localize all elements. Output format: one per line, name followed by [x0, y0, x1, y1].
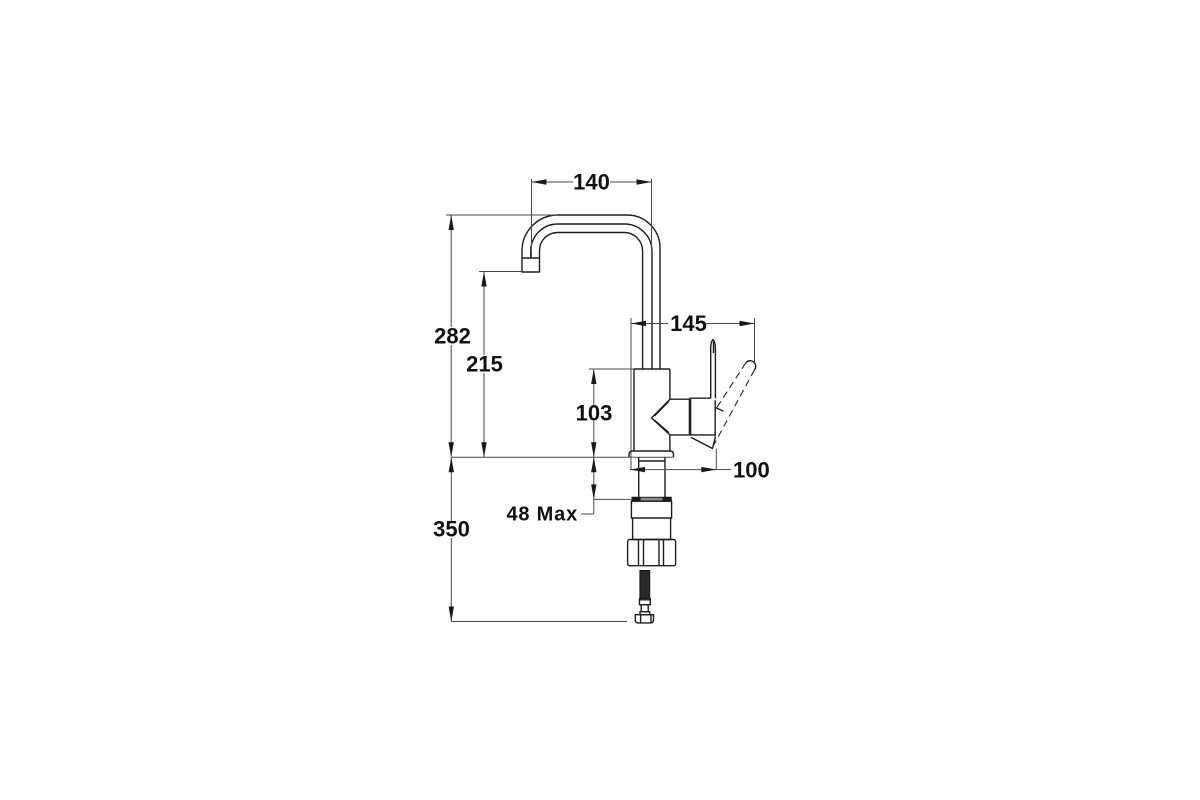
dim 282 extension: [446, 214, 558, 216]
dim 48max up arrow: [591, 457, 596, 472]
cartridge block top line: [670, 398, 711, 399]
dim 100 right extension: [715, 449, 717, 470]
dim 215 extension: [479, 271, 522, 273]
hex facet lines: [641, 615, 651, 623]
dim 282 down arrow: [449, 442, 454, 457]
dashed handle lower edge: [711, 370, 755, 451]
dim 48max arrows line: [593, 457, 595, 514]
locknut upper: [631, 501, 671, 518]
dim 103 line: [593, 369, 595, 457]
dim 350 down arrow: [449, 607, 454, 622]
dim 145 left arrow: [631, 321, 646, 326]
svg-text:350: 350: [433, 517, 470, 542]
dim 100 right arrow: [701, 467, 716, 472]
dim 103 extension: [589, 368, 634, 370]
dim 282 up arrow: [449, 215, 454, 230]
dim 215 up arrow: [481, 272, 486, 287]
dim 350 line: [450, 457, 452, 621]
spout tube middle line: [531, 224, 652, 369]
cartridge divider thick line: [689, 399, 692, 435]
handle base wedge below block: [691, 437, 715, 449]
dim 103 up arrow: [591, 369, 596, 384]
knurled nut: [628, 540, 676, 566]
stud collar: [640, 599, 651, 605]
knurl lines: [639, 540, 664, 566]
dim 100 line: [630, 469, 716, 471]
spout tube inner line: [540, 232, 643, 369]
cartridge block right edge: [714, 400, 716, 436]
washer black end left: [632, 497, 641, 502]
washer extension line: [594, 498, 632, 500]
faucet body: [634, 369, 670, 451]
deck line: [452, 456, 674, 458]
dim 100 left arrow: [630, 467, 645, 472]
dim 145 left extension: [630, 318, 632, 470]
dim 145 right extension: [754, 318, 756, 362]
washer black end right: [663, 497, 672, 502]
stud neck: [641, 605, 648, 612]
svg-text:103: 103: [576, 401, 613, 426]
dim 48max leader: [581, 513, 594, 515]
spout tube outer outline: [522, 215, 660, 369]
svg-text:140: 140: [573, 170, 610, 195]
dim 140 right extension: [651, 179, 653, 252]
dim 215 line: [483, 272, 485, 458]
dim 215 down arrow: [481, 442, 486, 457]
svg-text:145: 145: [670, 311, 707, 336]
dim 145 line: [631, 323, 755, 325]
dim 100 leader: [716, 469, 731, 471]
cartridge wedge on body: [652, 399, 670, 435]
dim 140 right arrow: [637, 179, 652, 184]
dim 103 down arrow: [591, 442, 596, 457]
cartridge block bottom line: [670, 434, 715, 436]
mounting washer dark band: [632, 497, 671, 501]
svg-text:48 Max: 48 Max: [506, 504, 578, 526]
dim 140 left arrow: [532, 179, 547, 184]
stud washer: [640, 612, 650, 615]
base flange: [629, 451, 674, 457]
hex bolt head: [635, 615, 653, 623]
stud collar line: [640, 599, 651, 601]
dashed handle upper edge: [717, 363, 746, 408]
cartridge wedge bevel lines: [655, 401, 669, 432]
shank below deck: [639, 457, 665, 497]
svg-text:100: 100: [733, 458, 770, 483]
handle lever inner line: [713, 342, 715, 354]
svg-text:282: 282: [434, 324, 471, 349]
dim 350 up arrow: [449, 457, 454, 472]
locknut lower: [633, 518, 671, 540]
handle notch to dashed position: [715, 408, 723, 412]
threaded stud: [640, 571, 650, 599]
dim 282 line: [450, 215, 452, 457]
dim 48max down arrow: [591, 484, 596, 499]
handle lever solid: [711, 340, 716, 399]
bottom reference line: [451, 621, 627, 623]
dim 140 left extension: [531, 179, 533, 258]
dim 140 line: [532, 181, 652, 183]
spout outlet box: [522, 258, 540, 272]
svg-text:215: 215: [466, 352, 503, 377]
dim 145 right arrow: [740, 321, 755, 326]
dashed handle cap arc: [746, 361, 756, 370]
